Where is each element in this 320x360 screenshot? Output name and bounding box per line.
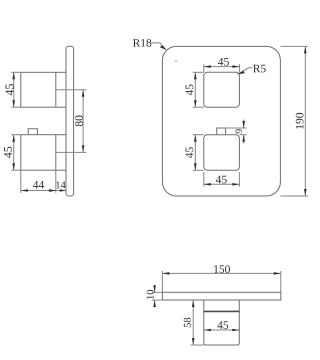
svg-text:10: 10 bbox=[146, 289, 157, 300]
side view: top handle cap divider bbox=[55, 72, 57, 107]
arrowheads bbox=[12, 45, 306, 345]
arrows dim 45 body bbox=[204, 329, 211, 332]
side view: bottom handle centre extension line bbox=[56, 151, 87, 153]
leader R5 bbox=[238, 68, 253, 74]
bottom view: plate section bbox=[162, 292, 280, 300]
svg-text:14: 14 bbox=[55, 180, 66, 191]
svg-text:45: 45 bbox=[216, 174, 228, 186]
arrow leader R18 bbox=[160, 45, 167, 50]
dimension 45 bottom-left line bbox=[13, 135, 15, 171]
dimension 58 extension line bbox=[191, 344, 204, 346]
arrows dim 45 left of top square bbox=[194, 72, 197, 79]
side view: bottom handle lever tab bbox=[28, 129, 37, 135]
dimension 45 below bottom square: extension lines bbox=[203, 172, 205, 187]
dimension 150 line bbox=[162, 272, 280, 274]
arrows dim 45 left of bottom square bbox=[194, 135, 197, 142]
side view: bottom handle body bbox=[21, 135, 66, 171]
arrows dim 80 bbox=[82, 90, 85, 97]
arrows dim 58 bbox=[192, 300, 195, 307]
dimension 45 left of bottom square: extension lines bbox=[193, 134, 204, 136]
arrows dim 190 bbox=[304, 46, 307, 53]
arrows dim 45 bottom-left bbox=[12, 135, 15, 142]
svg-text:150: 150 bbox=[213, 264, 231, 276]
front view: top square knob R5 bbox=[204, 72, 240, 107]
svg-text:44: 44 bbox=[33, 179, 45, 191]
svg-text:58: 58 bbox=[183, 317, 194, 328]
arrows dim 45 below bottom square bbox=[204, 183, 211, 186]
front view: face panel R18 bbox=[162, 46, 280, 196]
dimension 150 extension lines bbox=[161, 271, 163, 292]
bottom view: valve body bbox=[204, 300, 240, 345]
svg-text:45: 45 bbox=[218, 56, 230, 68]
panel surface speck bbox=[175, 60, 176, 61]
svg-text:190: 190 bbox=[294, 112, 306, 130]
dimension 190 extension lines bbox=[280, 45, 308, 47]
arrows dim 10 (outside, pointing inward) bbox=[153, 285, 156, 292]
dimension 45 below bottom square: line bbox=[204, 183, 240, 185]
dimension 10 extension lines bbox=[152, 291, 163, 293]
svg-text:45: 45 bbox=[184, 147, 196, 159]
dimension 45 left of bottom square: line bbox=[194, 135, 196, 171]
dimension 45 body line bbox=[204, 329, 240, 331]
arrows dim 45 top-left bbox=[12, 72, 15, 79]
dimension 45 left of top square: extension lines bbox=[193, 71, 204, 73]
side view: top handle body bbox=[21, 72, 66, 107]
svg-text:45: 45 bbox=[2, 84, 16, 96]
front view: bottom square knob R5 bbox=[204, 135, 240, 171]
svg-text:R5: R5 bbox=[253, 63, 267, 75]
dimension 45 top-left extension lines bbox=[11, 71, 20, 73]
dimension 45 above top square: line bbox=[204, 66, 240, 68]
arrows dim 14 bbox=[50, 189, 56, 191]
leader R18 bbox=[151, 43, 166, 50]
svg-text:9: 9 bbox=[234, 129, 245, 134]
svg-text:45: 45 bbox=[217, 320, 229, 332]
arrows dim 9 (outside, pointing inward) bbox=[242, 121, 245, 128]
side view: top handle centre extension line bbox=[56, 89, 87, 91]
dimension 45 above top square: extension lines bbox=[203, 64, 205, 72]
dimension 80 line bbox=[82, 90, 84, 153]
dimension 45 top-left line bbox=[13, 72, 15, 107]
svg-text:45: 45 bbox=[184, 84, 196, 96]
side view: wall plate bbox=[66, 46, 74, 196]
dimension 190 line bbox=[304, 46, 306, 196]
arrow leader R5 bbox=[237, 71, 245, 74]
bottom view: valve body inner edge bbox=[204, 310, 240, 312]
svg-text:80: 80 bbox=[74, 115, 86, 127]
dimension 45 left of top square: line bbox=[194, 72, 196, 107]
dimension 44/14 line bbox=[21, 190, 66, 192]
dimension 10 arrow stems bbox=[154, 285, 156, 292]
svg-text:R18: R18 bbox=[133, 38, 152, 50]
dimension 45 bottom-left extension lines bbox=[11, 134, 20, 136]
front view: bottom knob lever tab bbox=[217, 128, 226, 135]
arrows dim 44 bbox=[21, 189, 28, 192]
arrows dim 45 above top square bbox=[204, 65, 211, 68]
dimension 9 extension lines bbox=[226, 127, 247, 129]
svg-text:45: 45 bbox=[1, 146, 15, 158]
dimension 44 extension lines bbox=[20, 170, 22, 193]
side view: bottom handle cap divider bbox=[55, 135, 57, 171]
dimension 58 line bbox=[192, 300, 194, 345]
dimension 9 arrow stems bbox=[243, 120, 245, 129]
arrows dim 150 bbox=[162, 272, 169, 275]
